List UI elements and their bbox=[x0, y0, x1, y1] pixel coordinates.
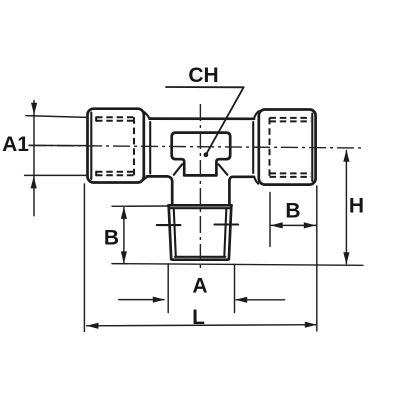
right fitting face slant bottom bbox=[254, 177, 258, 184]
B left dimension vertical line bbox=[123, 208, 125, 264]
A1 arrow down bbox=[31, 103, 37, 115]
horizontal centerline bbox=[29, 145, 365, 148]
left fitting face slant top bbox=[144, 112, 150, 119]
svg-text:CH: CH bbox=[188, 64, 218, 87]
CH leader dot bbox=[204, 152, 209, 157]
A1 top extension line bbox=[26, 116, 88, 118]
L dimension line bbox=[87, 325, 317, 326]
hex chamfer diagonal left bbox=[174, 164, 182, 175]
A1 dimension vertical line bbox=[33, 101, 35, 216]
male thread bottom edge bbox=[173, 258, 228, 261]
B right extension line left bbox=[269, 193, 271, 247]
right fitting internal thread dashed top line 1 bbox=[270, 117, 312, 119]
male thread right edge bbox=[227, 206, 232, 260]
svg-text:B: B bbox=[285, 200, 300, 223]
hex chamfer diagonal right bbox=[218, 164, 227, 175]
left female fitting body outline bbox=[88, 109, 144, 183]
left fitting face line bbox=[149, 122, 151, 174]
left fitting internal thread dashed top line 1 bbox=[96, 116, 134, 118]
left fitting thread dashed left connector bottom bbox=[95, 172, 97, 175]
right extension line shared by B right and L bbox=[316, 186, 318, 331]
right fitting internal thread dashed top line 2 bbox=[270, 120, 312, 122]
L arrow pointing left bbox=[87, 323, 99, 329]
male thread inner bottom edge bbox=[175, 256, 225, 258]
CH underline bbox=[166, 86, 244, 88]
B right arrow left bbox=[271, 222, 283, 228]
bottom extension line shared by B left and H bbox=[112, 264, 363, 266]
right fitting face line bbox=[252, 122, 254, 173]
left fitting internal thread dashed top line 2 bbox=[96, 120, 134, 122]
A right extension line bbox=[234, 264, 236, 312]
A1 pointer line bbox=[29, 144, 87, 146]
A1 arrow up bbox=[31, 176, 37, 188]
B left arrow up bbox=[121, 207, 127, 219]
svg-text:B: B bbox=[104, 227, 119, 250]
male thread inner right edge bbox=[224, 210, 226, 257]
A dimension right arrow line bbox=[236, 299, 285, 301]
left fitting inner edge line bbox=[90, 113, 92, 180]
B left arrow down bbox=[121, 251, 127, 263]
left fitting internal thread dashed bottom line 2 bbox=[96, 174, 134, 176]
right fitting internal thread dashed start line bbox=[269, 118, 271, 177]
vertical centerline of branch bbox=[199, 104, 201, 272]
H arrow up bbox=[343, 150, 349, 162]
right fitting internal thread dashed bottom line 1 bbox=[270, 172, 312, 174]
center hex boss outline bbox=[172, 133, 231, 176]
right fitting face slant top bbox=[254, 111, 259, 119]
svg-text:H: H bbox=[349, 194, 364, 217]
male thread gauge tick right bbox=[215, 223, 239, 225]
svg-text:A1: A1 bbox=[2, 133, 29, 156]
left fitting thread dashed left connector top bbox=[95, 117, 97, 121]
male thread top inner edge bbox=[169, 207, 231, 209]
left fitting internal thread dashed end line bbox=[133, 117, 135, 175]
B right arrow right bbox=[304, 222, 316, 228]
A arrow pointing left bbox=[235, 297, 247, 303]
right fitting internal thread dashed bottom line 2 bbox=[270, 176, 312, 178]
right fitting inner edge line bbox=[311, 114, 313, 182]
left fitting face slant bottom bbox=[144, 177, 148, 180]
svg-text:A: A bbox=[192, 274, 207, 297]
CH leader line bbox=[206, 87, 244, 154]
male thread left edge bbox=[169, 206, 174, 260]
H arrow down bbox=[343, 252, 349, 264]
A1 bottom extension line bbox=[25, 174, 88, 176]
body tube bottom-left line with fillet into branch neck left edge bbox=[147, 176, 172, 203]
A left extension line bbox=[167, 264, 169, 313]
B left top extension line bbox=[112, 205, 168, 207]
right female fitting body outline bbox=[259, 110, 316, 185]
body tube bottom-right line with fillet into branch neck right edge bbox=[229, 177, 253, 205]
male thread top edge bbox=[168, 204, 231, 207]
A arrow pointing right bbox=[153, 297, 165, 303]
A dimension left arrow line bbox=[119, 299, 164, 301]
H dimension vertical line bbox=[345, 151, 347, 264]
male thread inner left edge bbox=[174, 210, 176, 257]
left fitting internal thread dashed bottom line 1 bbox=[96, 171, 134, 173]
B right dimension line bbox=[271, 224, 316, 226]
L left extension line bbox=[83, 184, 85, 332]
male thread gauge tick left bbox=[157, 224, 181, 226]
L arrow pointing right bbox=[305, 322, 317, 328]
body tube top line bbox=[150, 117, 255, 120]
